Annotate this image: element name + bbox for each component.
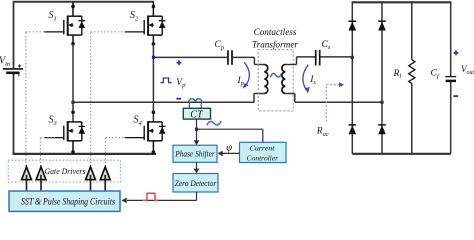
svg-text:Rl: Rl <box>393 69 402 80</box>
wire CT to current controller <box>197 129 263 142</box>
label minus Vp <box>176 98 181 100</box>
svg-text:Transformer: Transformer <box>252 40 298 50</box>
capacitor Cf plates <box>445 76 456 78</box>
resistor RL leg <box>411 1 413 154</box>
svg-text:S3: S3 <box>49 115 58 127</box>
CT box <box>183 108 210 119</box>
transistor S4 <box>125 111 166 154</box>
CT pickup coil <box>189 99 203 102</box>
battery Vin long plate <box>3 68 23 70</box>
rectifier top rail <box>352 1 450 3</box>
svg-text:S2: S2 <box>130 10 139 22</box>
transistor S1 <box>44 2 85 46</box>
squiggle CT output <box>207 121 221 125</box>
capacitor Cs <box>315 50 317 66</box>
box SST pulse shaping <box>9 191 120 211</box>
dashed gate line S3 <box>40 138 55 167</box>
wire controller to phase shifter <box>223 152 240 154</box>
pulse symbol Vp <box>160 78 171 83</box>
svg-text:Rac: Rac <box>316 126 329 137</box>
battery Vin short plate <box>6 72 19 75</box>
svg-text:Gate Drivers: Gate Drivers <box>45 166 87 176</box>
battery minus tick <box>18 74 20 76</box>
diode D1 <box>349 20 357 22</box>
rectifier leg 2 <box>381 1 383 154</box>
dashed gate line S1 <box>26 32 44 167</box>
rectifier leg 1 <box>351 1 353 154</box>
box gate drivers <box>8 160 120 182</box>
box current controller <box>240 142 287 162</box>
gate driver buffer 1 <box>22 167 32 180</box>
node Cs to rectifier junction <box>351 56 354 59</box>
svg-text:Cs: Cs <box>322 40 331 51</box>
wire zero detector to SST <box>127 192 197 200</box>
box zero detector <box>173 174 218 193</box>
transistor S3 <box>44 111 85 154</box>
svg-text:SST & Pulse Shaping Circuits: SST & Pulse Shaping Circuits <box>21 196 115 206</box>
svg-text:Current: Current <box>250 143 276 152</box>
wire bottom rail <box>13 153 156 155</box>
capacitor Cf leg <box>450 1 452 154</box>
transformer secondary coil <box>282 65 285 94</box>
svg-text:CT: CT <box>190 110 204 121</box>
wire secondary bottom <box>285 94 382 103</box>
svg-text:S4: S4 <box>134 115 143 127</box>
svg-text:Zero Detector: Zero Detector <box>175 179 217 188</box>
dashed gate line S2 <box>91 32 125 167</box>
svg-text:φ: φ <box>226 143 232 154</box>
gate driver buffer 2 <box>36 167 46 180</box>
current arrow Ip <box>244 62 249 85</box>
dashed Rac arrow <box>326 85 340 122</box>
label plus Vout <box>454 51 459 56</box>
label plus Vp <box>177 60 182 65</box>
wire left leg <box>72 44 74 122</box>
label minus Vout <box>453 95 458 97</box>
transistor S2 <box>125 2 166 46</box>
node CT branch <box>195 128 198 131</box>
svg-text:Vp: Vp <box>176 78 186 89</box>
svg-text:Phase Shifter: Phase Shifter <box>174 150 215 159</box>
svg-text:Cp: Cp <box>215 40 225 51</box>
battery plus sign <box>18 65 21 68</box>
diode D2 <box>378 20 386 22</box>
wire right leg <box>152 44 154 122</box>
rectifier bottom rail <box>352 153 450 155</box>
box phase shifter <box>173 145 217 162</box>
transformer dashed box <box>258 50 293 111</box>
svg-text:Is: Is <box>309 75 316 86</box>
capacitor Cp <box>227 50 229 65</box>
squiggle between coils <box>270 73 281 77</box>
transformer primary coil <box>264 65 267 94</box>
node bridge right mid junction <box>152 56 155 59</box>
gate driver buffer 3 <box>86 167 96 180</box>
wire primary bottom <box>73 94 264 103</box>
wire top rail <box>14 1 155 3</box>
node secondary bottom to rectifier junction <box>380 101 383 104</box>
svg-text:Contactless: Contactless <box>254 27 297 37</box>
resistor RL zigzag <box>409 60 415 84</box>
svg-text:Controller: Controller <box>247 153 279 162</box>
diode D4 <box>378 124 386 126</box>
diode D3 <box>349 124 357 126</box>
wire secondary top <box>285 57 352 65</box>
pulse symbol gate signal <box>142 193 158 200</box>
wire left rail upper <box>13 1 15 68</box>
current arrow Is <box>303 65 308 90</box>
dashed gate line S4 <box>105 138 124 167</box>
wire left rail lower <box>13 74 15 155</box>
wire primary top <box>154 57 265 64</box>
wire CT to phase shifter <box>196 119 198 141</box>
node bridge left mid junction <box>71 101 74 104</box>
gate driver buffer 4 <box>100 167 110 180</box>
svg-text:Cf: Cf <box>431 69 440 80</box>
wires buffers to SST <box>27 175 106 191</box>
svg-text:Vout: Vout <box>461 64 474 76</box>
wire phase shifter to zero detector <box>196 162 198 169</box>
svg-text:S1: S1 <box>49 10 57 22</box>
svg-text:Ip: Ip <box>237 76 245 87</box>
svg-text:Vin: Vin <box>0 56 10 68</box>
